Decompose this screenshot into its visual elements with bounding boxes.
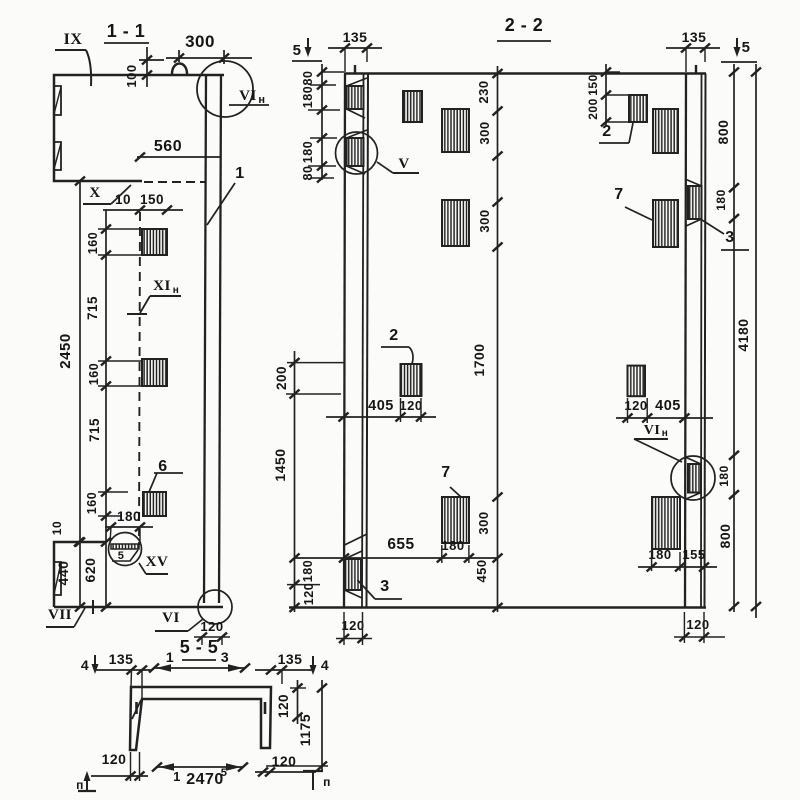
dim 120 bottom-right 5-5 bbox=[255, 753, 316, 777]
svg-text:160: 160 bbox=[86, 232, 100, 254]
groove bottom-left bbox=[54, 562, 61, 595]
detail label VI bottom bbox=[155, 610, 203, 631]
svg-text:120: 120 bbox=[399, 398, 422, 413]
dim 120 below left rail bbox=[336, 612, 372, 645]
svg-text:135: 135 bbox=[109, 651, 134, 667]
svg-text:5: 5 bbox=[742, 39, 751, 56]
dim 10 150 bbox=[103, 192, 183, 215]
rail plate 1 bbox=[347, 78, 368, 118]
svg-text:2470: 2470 bbox=[186, 771, 224, 788]
detail label V bbox=[377, 156, 419, 173]
svg-text:135: 135 bbox=[343, 29, 368, 45]
label VIn top bbox=[229, 88, 269, 106]
section mark 5 top-left bbox=[292, 38, 322, 61]
svg-text:120: 120 bbox=[102, 751, 127, 767]
chain ticks bbox=[98, 225, 152, 521]
top-right chain 150 200 bbox=[601, 64, 629, 127]
chain label 150 bbox=[586, 74, 600, 96]
bottom edge 1-1 bbox=[54, 538, 223, 615]
web plate 7R bbox=[652, 497, 680, 549]
dim 135 left 5-5 bbox=[95, 651, 152, 698]
chain label 800 a bbox=[715, 120, 731, 145]
chain label 715 a bbox=[85, 296, 100, 320]
dim 135 top-right bbox=[666, 29, 720, 72]
dim 180 155 right bbox=[638, 547, 717, 572]
detail label X bbox=[83, 185, 131, 204]
detail circle bottom rib bbox=[198, 590, 232, 624]
left chain 294 bbox=[286, 351, 345, 612]
svg-text:80: 80 bbox=[301, 71, 315, 86]
svg-text:XI: XI bbox=[153, 278, 171, 294]
svg-text:135: 135 bbox=[682, 29, 707, 45]
svg-text:230: 230 bbox=[476, 80, 491, 103]
web plate f bbox=[653, 200, 678, 247]
chain label 180 e bbox=[717, 465, 731, 487]
web plate c bbox=[442, 200, 469, 246]
dim 120 405 right bbox=[616, 398, 713, 423]
detail label XV bbox=[139, 554, 168, 574]
bar mark right leg bbox=[264, 702, 267, 714]
right rail stub bbox=[695, 65, 697, 74]
chain label 80 a bbox=[301, 71, 315, 86]
svg-text:715: 715 bbox=[85, 296, 100, 320]
chain label 180 a bbox=[301, 86, 315, 108]
view title 5-5 bbox=[180, 637, 219, 660]
svg-text:150: 150 bbox=[140, 192, 164, 207]
svg-text:300: 300 bbox=[477, 209, 492, 232]
section mark bottom-right bbox=[303, 771, 331, 790]
svg-text:180: 180 bbox=[301, 560, 315, 582]
svg-text:180: 180 bbox=[441, 538, 464, 553]
svg-text:620: 620 bbox=[82, 558, 98, 583]
svg-text:180: 180 bbox=[117, 509, 141, 524]
dim 100 vertical bbox=[124, 47, 164, 88]
svg-text:2: 2 bbox=[602, 123, 611, 140]
chain label 200 bbox=[274, 366, 289, 390]
detail label VIn right bbox=[634, 423, 682, 462]
svg-text:IX: IX bbox=[64, 31, 83, 48]
svg-text:1175: 1175 bbox=[297, 714, 313, 746]
web plate a bbox=[403, 91, 422, 122]
svg-text:7: 7 bbox=[441, 464, 450, 481]
svg-text:п: п bbox=[76, 778, 84, 792]
hidden web line dashed bbox=[139, 212, 140, 545]
svg-text:2450: 2450 bbox=[57, 333, 74, 368]
svg-text:560: 560 bbox=[154, 138, 182, 155]
chain label 180 b bbox=[301, 141, 315, 163]
dim line 2450 bbox=[57, 177, 85, 612]
center chain label 1700 bbox=[471, 343, 487, 376]
pos label 6 bbox=[149, 458, 183, 492]
svg-text:п: п bbox=[323, 775, 331, 789]
svg-text:3: 3 bbox=[380, 578, 389, 595]
pos label 1 bbox=[207, 165, 245, 225]
dim 405 120 left bbox=[326, 398, 436, 422]
chain label 180 c bbox=[301, 560, 315, 582]
chain label 180 d bbox=[714, 189, 728, 211]
right chain 734 bbox=[729, 64, 739, 612]
svg-text:200: 200 bbox=[586, 98, 600, 120]
svg-text:1 - 1: 1 - 1 bbox=[107, 21, 146, 41]
web plate d bbox=[629, 95, 647, 122]
svg-text:X: X bbox=[89, 185, 100, 201]
groove top-left 1 bbox=[54, 86, 61, 115]
pos label 7 right bbox=[614, 186, 652, 220]
svg-text:1: 1 bbox=[166, 649, 174, 665]
svg-text:1: 1 bbox=[173, 769, 181, 784]
svg-text:3: 3 bbox=[221, 649, 229, 665]
svg-text:4: 4 bbox=[321, 657, 329, 673]
svg-text:10: 10 bbox=[115, 192, 131, 207]
chain line left bbox=[105, 210, 107, 607]
web plate b bbox=[442, 109, 469, 152]
svg-text:160: 160 bbox=[85, 492, 99, 514]
svg-text:300: 300 bbox=[477, 121, 492, 144]
dim 655 180 bbox=[295, 536, 498, 563]
svg-text:1450: 1450 bbox=[272, 448, 288, 481]
chain label 800 b bbox=[717, 524, 733, 549]
rail plate bottom bbox=[345, 551, 363, 598]
detail label XIn bbox=[127, 278, 181, 314]
svg-text:2: 2 bbox=[389, 327, 398, 344]
outer chain 756 bbox=[751, 64, 761, 618]
svg-text:800: 800 bbox=[715, 120, 731, 145]
detail circle XV bbox=[109, 533, 142, 566]
left chain 322 bbox=[308, 64, 344, 183]
panel top edge bbox=[344, 72, 706, 75]
center chain bbox=[493, 66, 503, 612]
panel web rib lines bbox=[204, 75, 221, 603]
svg-text:н: н bbox=[662, 428, 669, 439]
dim 620 rot bbox=[82, 558, 98, 583]
left rail lines bbox=[344, 74, 368, 608]
svg-text:180: 180 bbox=[301, 86, 315, 108]
rail plate 2 bbox=[347, 130, 368, 174]
web plate e bbox=[653, 109, 678, 153]
dim 120 bottom-left 5-5 bbox=[91, 751, 148, 781]
svg-text:80: 80 bbox=[301, 166, 315, 181]
view title 1-1 bbox=[104, 21, 149, 43]
chain label 4180 bbox=[735, 318, 751, 351]
svg-text:300: 300 bbox=[185, 32, 215, 51]
svg-text:4180: 4180 bbox=[735, 318, 751, 351]
section mark 4 right bbox=[310, 656, 330, 675]
dim 2470 arrows bbox=[152, 763, 248, 789]
svg-text:655: 655 bbox=[387, 536, 414, 553]
svg-text:100: 100 bbox=[124, 64, 139, 87]
svg-text:160: 160 bbox=[87, 363, 101, 385]
svg-text:405: 405 bbox=[655, 398, 681, 414]
svg-text:VI: VI bbox=[239, 88, 257, 104]
chain label 1450 bbox=[272, 448, 288, 481]
left rail stub bbox=[354, 65, 356, 74]
svg-text:120: 120 bbox=[302, 583, 316, 605]
svg-text:155: 155 bbox=[682, 547, 705, 562]
dim arrows 1 3 bbox=[149, 649, 250, 673]
center chain label 300 a bbox=[477, 121, 492, 144]
right rail lines bbox=[685, 74, 706, 608]
svg-text:405: 405 bbox=[368, 398, 394, 414]
svg-text:200: 200 bbox=[274, 366, 289, 390]
section mark 5 top-right bbox=[721, 38, 757, 62]
svg-text:120: 120 bbox=[341, 618, 364, 633]
pos label 7 left bbox=[441, 464, 461, 497]
pos label 3 right bbox=[702, 220, 749, 250]
svg-text:V: V bbox=[398, 156, 409, 172]
svg-text:7: 7 bbox=[614, 186, 623, 203]
dim 440 rot bbox=[55, 561, 71, 586]
svg-text:800: 800 bbox=[717, 524, 733, 549]
panel bottom edge bbox=[289, 606, 706, 609]
pos label 3 left bbox=[358, 578, 403, 599]
svg-text:н: н bbox=[173, 285, 180, 296]
dim 120 right rot bbox=[276, 680, 306, 724]
svg-text:4: 4 bbox=[81, 657, 89, 673]
top end rib outline bbox=[54, 75, 224, 181]
svg-text:120: 120 bbox=[272, 753, 297, 769]
pos label 2 right bbox=[599, 123, 633, 143]
lifting loop bbox=[172, 64, 187, 75]
view title 2-2 bbox=[497, 15, 551, 41]
dim 135 top-left bbox=[328, 29, 382, 72]
detail circle right bbox=[671, 456, 715, 500]
svg-text:715: 715 bbox=[87, 418, 102, 442]
center chain label 300 c bbox=[476, 511, 491, 534]
chain label 200 b bbox=[586, 98, 600, 120]
svg-text:120: 120 bbox=[276, 694, 291, 718]
chain label 160 c bbox=[85, 492, 99, 514]
embedded channel strip bbox=[111, 544, 139, 549]
embed plate 6 bbox=[143, 492, 166, 516]
svg-text:2 - 2: 2 - 2 bbox=[505, 15, 544, 35]
svg-text:VI: VI bbox=[644, 423, 661, 438]
dim 120 below right rail bbox=[674, 612, 725, 643]
svg-text:180: 180 bbox=[301, 141, 315, 163]
section mark 4 left bbox=[81, 655, 99, 674]
svg-text:180: 180 bbox=[714, 189, 728, 211]
chain label 715 b bbox=[87, 418, 102, 442]
embed plate top bbox=[142, 229, 167, 255]
center chain label 450 bbox=[474, 559, 489, 582]
chain label 120 a bbox=[302, 583, 316, 605]
dim 120 under rib bbox=[194, 619, 230, 645]
bottom end rib bbox=[54, 538, 106, 608]
dim 10 rot bbox=[50, 521, 64, 535]
svg-text:1: 1 bbox=[235, 165, 244, 182]
dim 1175 rot bbox=[266, 680, 328, 772]
svg-text:135: 135 bbox=[278, 651, 303, 667]
svg-text:3: 3 bbox=[725, 229, 734, 246]
pos label 5 flag bbox=[112, 550, 138, 562]
svg-text:150: 150 bbox=[586, 74, 600, 96]
dim 135 right 5-5 bbox=[255, 651, 312, 684]
rail plate right top bbox=[685, 179, 702, 226]
svg-text:5: 5 bbox=[221, 767, 228, 779]
svg-text:450: 450 bbox=[474, 559, 489, 582]
svg-text:120: 120 bbox=[686, 617, 709, 632]
left leg taper bbox=[132, 700, 141, 719]
svg-text:XV: XV bbox=[146, 554, 169, 570]
center chain label 230 bbox=[476, 80, 491, 103]
groove top-left 2 bbox=[54, 142, 61, 170]
cap bottom hidden edge bbox=[144, 181, 205, 183]
detail circle top rib bbox=[197, 61, 253, 117]
dim 180 bottom-left bbox=[105, 509, 153, 545]
chain label 80 b bbox=[301, 166, 315, 181]
channel profile bbox=[130, 687, 271, 750]
svg-text:10: 10 bbox=[50, 521, 64, 535]
center chain label 300 b bbox=[477, 209, 492, 232]
chain label 160 b bbox=[87, 363, 101, 385]
detail circle V bbox=[336, 132, 378, 174]
svg-text:300: 300 bbox=[476, 511, 491, 534]
web plate 2 bbox=[401, 364, 422, 396]
rail plate right circled bbox=[685, 457, 701, 499]
section mark bottom-left bbox=[76, 771, 96, 792]
detail label IX bbox=[55, 31, 91, 86]
svg-text:180: 180 bbox=[717, 465, 731, 487]
svg-text:440: 440 bbox=[55, 561, 71, 586]
svg-text:5 - 5: 5 - 5 bbox=[180, 637, 219, 657]
svg-text:1700: 1700 bbox=[471, 343, 487, 376]
svg-text:VII: VII bbox=[48, 607, 72, 623]
web plate 7L bbox=[442, 497, 469, 543]
svg-text:VI: VI bbox=[162, 610, 180, 626]
svg-text:5: 5 bbox=[293, 42, 302, 59]
detail label VII bbox=[46, 607, 85, 627]
svg-text:120: 120 bbox=[200, 619, 223, 634]
chain label 160 a bbox=[86, 232, 100, 254]
bar mark left leg bbox=[135, 702, 138, 714]
dim 560 bbox=[135, 138, 221, 162]
web plate g bbox=[628, 366, 646, 397]
left rail taper bbox=[345, 534, 368, 545]
dim 300 top bbox=[166, 32, 252, 64]
embed plate mid bbox=[142, 359, 167, 386]
pos label 2 mid bbox=[381, 327, 413, 364]
